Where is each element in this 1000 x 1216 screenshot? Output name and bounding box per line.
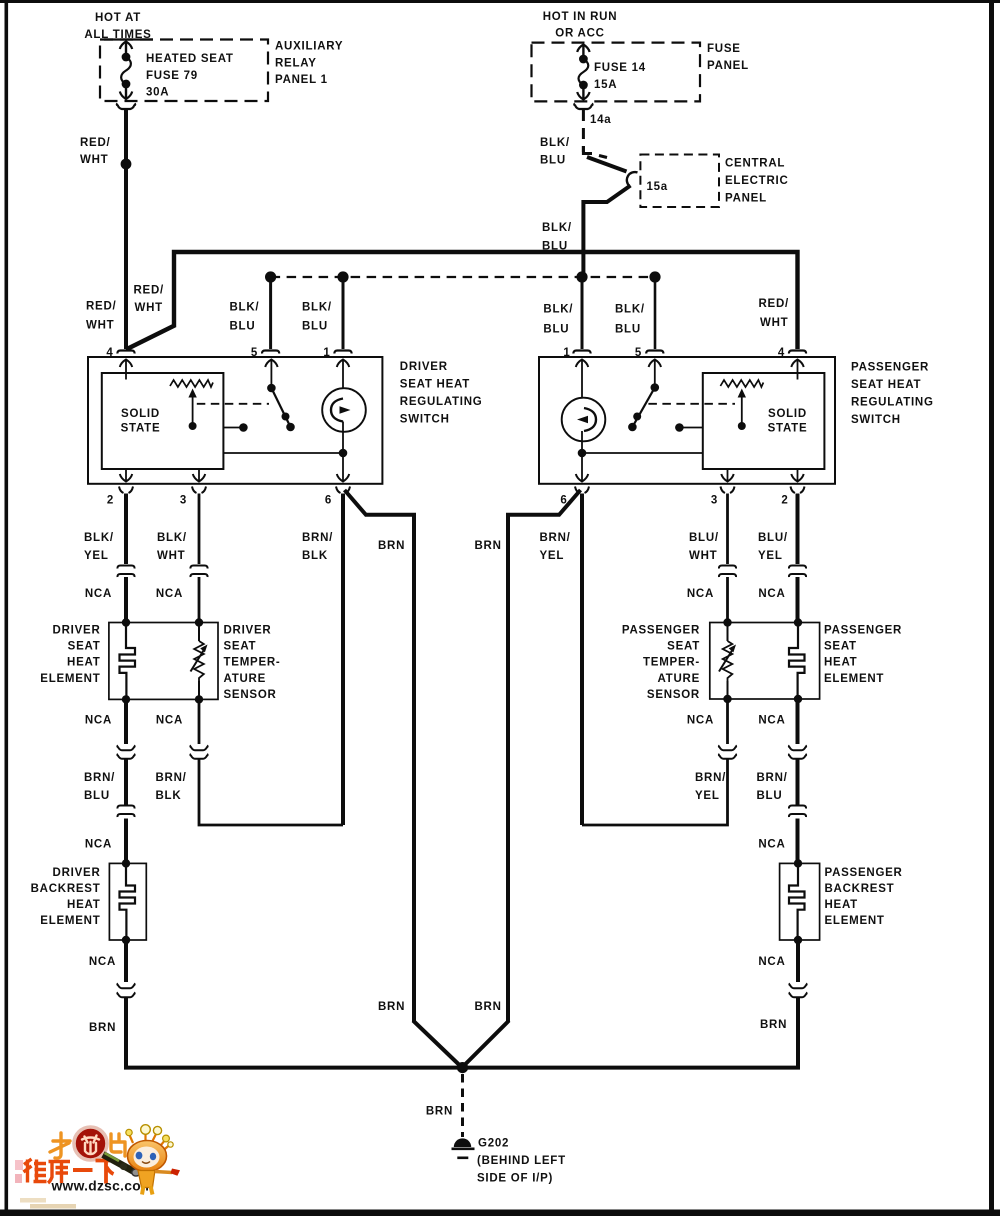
svg-text:SENSOR: SENSOR — [224, 689, 277, 701]
svg-text:BLK/: BLK/ — [157, 532, 187, 544]
relay switch blade in central electric panel — [587, 157, 627, 172]
svg-text:BRN: BRN — [426, 1106, 453, 1118]
label CENTRAL ELECTRIC PANEL — [725, 158, 789, 205]
indicator lamp driver — [322, 388, 366, 432]
pin 5 driver internal arrow — [265, 360, 277, 389]
solid state module passenger — [703, 373, 825, 469]
label RED/WHT driver inner — [134, 285, 165, 315]
node dot driver pin5 feed — [265, 271, 276, 282]
passenger backrest heat element box — [780, 863, 820, 940]
wire BRN/BLU driver to backrest — [124, 759, 128, 863]
wire BLK/BLU to driver pin 1 — [342, 277, 345, 349]
label BLK/BLU driver pin1 — [302, 302, 332, 333]
svg-text:BLK/: BLK/ — [615, 304, 645, 316]
node junction on RED/WHT wire — [121, 159, 132, 170]
pin 4 passenger connector — [789, 351, 806, 354]
svg-text:BRN/: BRN/ — [84, 772, 115, 784]
pin 2 driver internal arrow — [120, 469, 132, 482]
svg-text:BLK/: BLK/ — [542, 222, 572, 234]
pin 4 passenger internal arrow — [791, 360, 803, 380]
svg-text:RED/: RED/ — [759, 298, 790, 310]
wire BLK/BLU to passenger pin 1 — [581, 277, 584, 349]
svg-text:BLK: BLK — [302, 550, 328, 562]
label SOLID STATE driver — [121, 408, 161, 435]
connector below fuse 79 — [117, 104, 135, 110]
connector pair passenger backrest feed — [789, 806, 806, 818]
node dot passenger pin1 feed — [576, 271, 587, 282]
pin 6 driver connector — [336, 487, 350, 494]
label BLK/WHT — [157, 532, 187, 562]
svg-text:NCA: NCA — [687, 715, 714, 727]
svg-text:NCA: NCA — [758, 956, 785, 968]
pin 4 driver connector — [117, 351, 134, 354]
label NCA row1 — [85, 588, 786, 600]
svg-text:BLK/: BLK/ — [84, 532, 114, 544]
wire driver sensor feed — [198, 577, 201, 623]
label SOLID STATE passenger — [768, 408, 808, 435]
node ground junction G202 — [457, 1062, 468, 1073]
svg-text:BRN/: BRN/ — [695, 772, 726, 784]
svg-text:(BEHIND LEFT: (BEHIND LEFT — [477, 1155, 566, 1167]
label NCA row2 — [85, 715, 786, 727]
svg-text:TEMPER-: TEMPER- — [224, 657, 281, 669]
label BLU/YEL — [758, 532, 788, 562]
switch blade passenger — [628, 383, 659, 431]
svg-text:3: 3 — [711, 495, 718, 507]
switch contact driver — [223, 423, 247, 432]
node dots driver seat box — [122, 618, 203, 703]
connector pair driver backrest feed — [117, 806, 134, 818]
svg-text:RED/: RED/ — [134, 285, 165, 297]
svg-text:BLK/: BLK/ — [540, 137, 570, 149]
connector cups passenger element wire — [789, 746, 806, 759]
label BLK/BLU passenger pin5 — [615, 304, 645, 336]
svg-text:HOT AT: HOT AT — [95, 12, 141, 24]
label BRN/BLK driver lower — [156, 772, 187, 802]
node dot passenger pin5 feed — [649, 271, 660, 282]
svg-text:15A: 15A — [594, 79, 617, 91]
svg-text:BRN: BRN — [378, 540, 405, 552]
svg-text:DRIVER: DRIVER — [53, 625, 101, 637]
svg-text:BACKREST: BACKREST — [31, 883, 101, 895]
label G202 (BEHIND LEFT SIDE OF I/P) — [477, 1138, 566, 1185]
wire solid state to lamp junction driver — [223, 452, 343, 454]
svg-text:PASSENGER: PASSENGER — [825, 867, 903, 879]
connector cups passenger sensor wire — [719, 746, 736, 759]
wire BLK/YEL driver pin 2 — [124, 494, 128, 565]
wire passenger sensor return — [582, 759, 728, 825]
label BRN/BLK pin 6 — [302, 532, 333, 562]
heating element passenger seat — [789, 623, 805, 700]
wire RED/WHT from fuse 79 to driver pin 4 — [124, 110, 128, 349]
temperature sensor driver seat — [191, 623, 208, 700]
connector cups driver backrest out — [117, 984, 134, 998]
svg-text:BRN: BRN — [760, 1019, 787, 1031]
switch contact passenger — [675, 423, 703, 432]
pin 2 passenger connector — [791, 487, 805, 494]
label RED/WHT driver outer — [86, 301, 117, 332]
svg-text:DRIVER: DRIVER — [400, 361, 448, 373]
svg-text:SIDE OF I/P): SIDE OF I/P) — [477, 1173, 553, 1185]
node dots passenger backrest — [794, 859, 802, 944]
pin 1 passenger internal arrow — [576, 360, 588, 399]
svg-text:BLU/: BLU/ — [689, 532, 719, 544]
svg-text:PASSENGER: PASSENGER — [824, 625, 902, 637]
svg-text:2: 2 — [107, 495, 114, 507]
svg-text:SOLID: SOLID — [121, 408, 160, 420]
pin 3 passenger connector — [721, 487, 735, 494]
svg-text:BLK/: BLK/ — [230, 302, 260, 314]
driver seat heat regulating switch box — [88, 357, 382, 484]
svg-text:PANEL: PANEL — [725, 193, 767, 205]
svg-text:BRN: BRN — [89, 1022, 116, 1034]
svg-text:NCA: NCA — [758, 588, 785, 600]
potentiometer driver — [170, 380, 213, 430]
svg-text:SEAT: SEAT — [224, 641, 257, 653]
mechanical link dashed passenger — [648, 403, 735, 405]
svg-text:30A: 30A — [146, 87, 169, 99]
svg-text:NCA: NCA — [85, 839, 112, 851]
pin 1 passenger connector — [573, 351, 590, 354]
svg-text:AUXILIARY: AUXILIARY — [275, 41, 343, 53]
driver backrest heat element box — [109, 863, 146, 940]
wire BRN driver to ground bus — [126, 998, 798, 1068]
wire passenger sensor out — [726, 699, 729, 744]
svg-text:SOLID: SOLID — [768, 408, 807, 420]
svg-text:FUSE 14: FUSE 14 — [594, 62, 646, 74]
pin 6 passenger connector — [575, 487, 589, 494]
pin 5 passenger connector — [646, 351, 663, 354]
potentiometer passenger — [720, 380, 763, 430]
node dots driver backrest — [122, 859, 130, 944]
svg-text:WHT: WHT — [86, 320, 114, 332]
svg-text:ATURE: ATURE — [657, 673, 700, 685]
label DRIVER SEAT TEMPERATURE SENSOR — [224, 625, 281, 701]
central electric panel box — [640, 155, 719, 208]
svg-text:WHT: WHT — [760, 317, 788, 329]
passenger seat heat regulating switch box — [539, 357, 835, 484]
node HOT AT ALL TIMES — [84, 12, 153, 41]
wire driver sensor return — [199, 759, 343, 825]
pin 1 driver connector — [334, 351, 351, 354]
svg-text:SEAT HEAT: SEAT HEAT — [400, 379, 470, 391]
svg-text:BRN: BRN — [475, 1001, 502, 1013]
svg-text:FUSE: FUSE — [707, 43, 741, 55]
fuse 14 symbol — [577, 45, 589, 100]
svg-text:WHT: WHT — [157, 550, 185, 562]
svg-text:BACKREST: BACKREST — [825, 883, 895, 895]
svg-text:RELAY: RELAY — [275, 58, 317, 70]
pin 3 passenger internal arrow — [721, 469, 733, 482]
pin 4 driver internal arrow — [120, 360, 132, 380]
svg-text:NCA: NCA — [758, 715, 785, 727]
svg-text:BRN: BRN — [378, 1001, 405, 1013]
heating element passenger backrest — [789, 863, 805, 940]
svg-text:ELEMENT: ELEMENT — [40, 915, 100, 927]
label BRN/BLU passenger — [757, 772, 788, 802]
solid state module driver — [102, 373, 224, 469]
svg-text:PASSENGER: PASSENGER — [851, 362, 929, 374]
fuse panel box — [532, 43, 701, 102]
wire lamp to pin 6 driver — [342, 432, 344, 453]
svg-text:HEAT: HEAT — [824, 657, 857, 669]
node lamp junction passenger — [578, 449, 587, 458]
indicator lamp passenger — [562, 398, 606, 442]
svg-text:BLK: BLK — [156, 790, 182, 802]
svg-text:BLU: BLU — [540, 155, 566, 167]
svg-text:WHT: WHT — [689, 550, 717, 562]
connector pair passenger pin3 wire — [719, 566, 736, 578]
label DRIVER SEAT HEAT ELEMENT — [40, 625, 100, 685]
switch blade driver — [267, 384, 295, 432]
wire BRN/BLU passenger to backrest — [796, 759, 800, 863]
wire BLU/YEL passenger pin 2 — [796, 494, 800, 565]
svg-text:YEL: YEL — [540, 550, 565, 562]
svg-text:BLU: BLU — [543, 324, 569, 336]
wire BRN driver ground branch — [345, 490, 463, 1068]
wire driver element feed — [124, 577, 128, 623]
node lamp junction driver — [339, 449, 348, 458]
label FUSE 14 15A — [594, 62, 646, 91]
pin 6 passenger internal arrow — [576, 453, 588, 482]
label RED/WHT upper — [80, 137, 111, 166]
svg-text:NCA: NCA — [758, 839, 785, 851]
svg-text:RED/: RED/ — [86, 301, 117, 313]
svg-text:NCA: NCA — [89, 956, 116, 968]
wire driver element out — [124, 699, 128, 744]
ground G202 symbol — [452, 1138, 475, 1157]
wire BLU/WHT passenger pin 3 — [726, 494, 729, 565]
label BLK/BLU upper — [540, 137, 570, 167]
connector pair driver pin3 wire — [190, 566, 207, 578]
svg-text:PANEL 1: PANEL 1 — [275, 74, 328, 86]
wire solid state to lamp junction passenger — [582, 452, 703, 454]
svg-text:OR ACC: OR ACC — [555, 28, 604, 40]
pin 1 driver internal arrow — [337, 360, 349, 390]
svg-text:BLU: BLU — [757, 790, 783, 802]
pin 5 driver connector — [262, 351, 279, 354]
svg-text:YEL: YEL — [758, 550, 783, 562]
svg-text:STATE: STATE — [768, 423, 808, 435]
svg-text:SEAT: SEAT — [68, 641, 101, 653]
svg-text:NCA: NCA — [156, 588, 183, 600]
watermark dzsc logo — [15, 1125, 180, 1209]
wire dashed link line — [271, 276, 655, 278]
svg-text:G202: G202 — [478, 1138, 509, 1150]
node dot driver pin1 feed — [337, 271, 348, 282]
pin 2 passenger internal arrow — [791, 469, 803, 482]
svg-text:REGULATING: REGULATING — [851, 397, 934, 409]
connector cups passenger backrest out — [789, 984, 806, 998]
wire passenger backrest lower — [796, 940, 800, 982]
wire BRN/BLK driver pin 6 — [341, 494, 345, 826]
wire BLK/BLU from central electric panel down — [583, 186, 630, 280]
node dots passenger seat box — [723, 618, 802, 703]
passenger seat heat element box — [710, 623, 820, 700]
svg-text:BRN: BRN — [475, 540, 502, 552]
heating element driver backrest — [120, 863, 136, 940]
svg-text:ELEMENT: ELEMENT — [40, 673, 100, 685]
pin 3 driver connector — [192, 487, 206, 494]
wire BLK/BLU to driver pin 5 — [269, 277, 272, 349]
auxiliary relay panel 1 box — [100, 40, 268, 102]
wire BRN/YEL passenger pin 6 — [580, 494, 584, 826]
wire passenger element out — [796, 699, 800, 744]
wire BLK/WHT driver pin 3 — [198, 494, 201, 565]
label BRN/BLU driver — [84, 772, 115, 802]
svg-text:FUSE 79: FUSE 79 — [146, 70, 198, 82]
svg-text:ELEMENT: ELEMENT — [824, 673, 884, 685]
connector pair passenger pin2 wire — [789, 566, 806, 578]
svg-text:BLU: BLU — [230, 321, 256, 333]
svg-text:YEL: YEL — [695, 790, 720, 802]
label BRN/YEL passenger lower — [695, 772, 726, 802]
wire RED/WHT bus to passenger pin 4 — [126, 252, 798, 350]
svg-text:SWITCH: SWITCH — [400, 414, 450, 426]
svg-text:DRIVER: DRIVER — [224, 625, 272, 637]
svg-text:BLU: BLU — [84, 790, 110, 802]
heating element driver seat — [120, 623, 136, 700]
label PASSENGER BACKREST HEAT ELEMENT — [825, 867, 903, 927]
svg-text:HEATED SEAT: HEATED SEAT — [146, 53, 234, 65]
svg-text:DRIVER: DRIVER — [53, 867, 101, 879]
svg-text:CENTRAL: CENTRAL — [725, 158, 785, 170]
svg-text:BRN/: BRN/ — [757, 772, 788, 784]
svg-text:WHT: WHT — [135, 302, 163, 314]
svg-text:YEL: YEL — [84, 550, 109, 562]
label DRIVER SEAT HEAT REGULATING SWITCH — [400, 361, 483, 426]
temperature sensor passenger seat — [719, 623, 736, 700]
svg-text:NCA: NCA — [687, 588, 714, 600]
node HOT IN RUN OR ACC — [543, 11, 618, 40]
svg-text:SEAT: SEAT — [824, 641, 857, 653]
svg-text:3: 3 — [180, 495, 187, 507]
svg-text:ATURE: ATURE — [224, 673, 267, 685]
connector 14a below fuse panel — [574, 104, 592, 110]
svg-text:HOT IN RUN: HOT IN RUN — [543, 11, 618, 23]
svg-text:NCA: NCA — [85, 588, 112, 600]
svg-text:NCA: NCA — [156, 715, 183, 727]
wire BLK/BLU to passenger pin 5 — [654, 277, 657, 349]
pin 3 driver internal arrow — [193, 469, 205, 482]
svg-text:HEAT: HEAT — [67, 899, 100, 911]
svg-text:BLU: BLU — [615, 324, 641, 336]
svg-text:NCA: NCA — [85, 715, 112, 727]
svg-text:SWITCH: SWITCH — [851, 414, 901, 426]
pin 2 driver connector — [119, 487, 133, 494]
contact 15a arc — [627, 172, 638, 186]
svg-text:PASSENGER: PASSENGER — [622, 625, 700, 637]
svg-text:6: 6 — [325, 495, 332, 507]
svg-text:BLU: BLU — [302, 321, 328, 333]
svg-text:REGULATING: REGULATING — [400, 396, 483, 408]
svg-text:15a: 15a — [647, 181, 668, 193]
svg-text:BLK/: BLK/ — [543, 304, 573, 316]
label BLK/BLU driver pin5 — [230, 302, 260, 333]
svg-text:PANEL: PANEL — [707, 60, 749, 72]
label BLK/BLU lower — [542, 222, 572, 253]
label RED/WHT passenger — [759, 298, 790, 329]
mechanical link dashed driver — [197, 403, 269, 405]
fuse 79 symbol — [120, 42, 132, 100]
svg-text:RED/: RED/ — [80, 137, 111, 149]
svg-text:ELECTRIC: ELECTRIC — [725, 175, 789, 187]
svg-text:TEMPER-: TEMPER- — [643, 657, 700, 669]
label BRN/YEL pin 6 — [540, 532, 571, 562]
svg-text:BLK/: BLK/ — [302, 302, 332, 314]
label BLK/BLU passenger pin1 — [543, 304, 573, 336]
wire passenger element feed — [796, 577, 800, 623]
label NCA row3 — [85, 839, 786, 851]
label PASSENGER SEAT HEAT ELEMENT — [824, 625, 902, 685]
wire BRN dashed to ground — [461, 1074, 464, 1137]
svg-text:ELEMENT: ELEMENT — [825, 915, 885, 927]
svg-text:BLU/: BLU/ — [758, 532, 788, 544]
svg-text:14a: 14a — [590, 114, 611, 126]
label FUSE PANEL — [707, 43, 749, 72]
svg-text:2: 2 — [781, 495, 788, 507]
label PASSENGER SEAT HEAT REGULATING SWITCH — [851, 362, 934, 427]
svg-text:SEAT: SEAT — [667, 641, 700, 653]
label PASSENGER SEAT TEMPERATURE SENSOR — [622, 625, 700, 701]
svg-text:SENSOR: SENSOR — [647, 689, 700, 701]
connector cups driver element wire — [117, 746, 134, 759]
svg-text:HEAT: HEAT — [67, 657, 100, 669]
connector pair driver pin2 wire — [117, 566, 134, 578]
wire driver sensor out — [198, 699, 201, 744]
wire lamp to pin 6 passenger — [581, 441, 583, 453]
wire BRN passenger ground branch — [462, 490, 581, 1068]
svg-text:STATE: STATE — [121, 423, 161, 435]
label AUXILIARY RELAY PANEL 1 — [275, 41, 343, 87]
svg-text:SEAT HEAT: SEAT HEAT — [851, 379, 921, 391]
pin 5 passenger internal arrow — [649, 360, 661, 388]
pin 6 driver internal arrow — [337, 453, 349, 482]
wire BLK/BLU dashed into central electric panel — [583, 110, 607, 158]
connector cups driver sensor wire — [190, 746, 207, 759]
svg-text:HEAT: HEAT — [825, 899, 858, 911]
svg-text:www.dzsc.com: www.dzsc.com — [51, 1179, 154, 1194]
svg-text:WHT: WHT — [80, 154, 108, 166]
label HEATED SEAT FUSE 79 30A — [146, 53, 234, 99]
wire passenger sensor feed — [726, 577, 729, 623]
driver seat heat element box — [109, 623, 218, 700]
label DRIVER BACKREST HEAT ELEMENT — [31, 867, 101, 927]
label BLK/YEL — [84, 532, 114, 562]
svg-text:BRN/: BRN/ — [540, 532, 571, 544]
svg-text:BRN/: BRN/ — [302, 532, 333, 544]
label BLU/WHT — [689, 532, 719, 562]
svg-text:BRN/: BRN/ — [156, 772, 187, 784]
wire driver backrest out — [124, 940, 128, 982]
